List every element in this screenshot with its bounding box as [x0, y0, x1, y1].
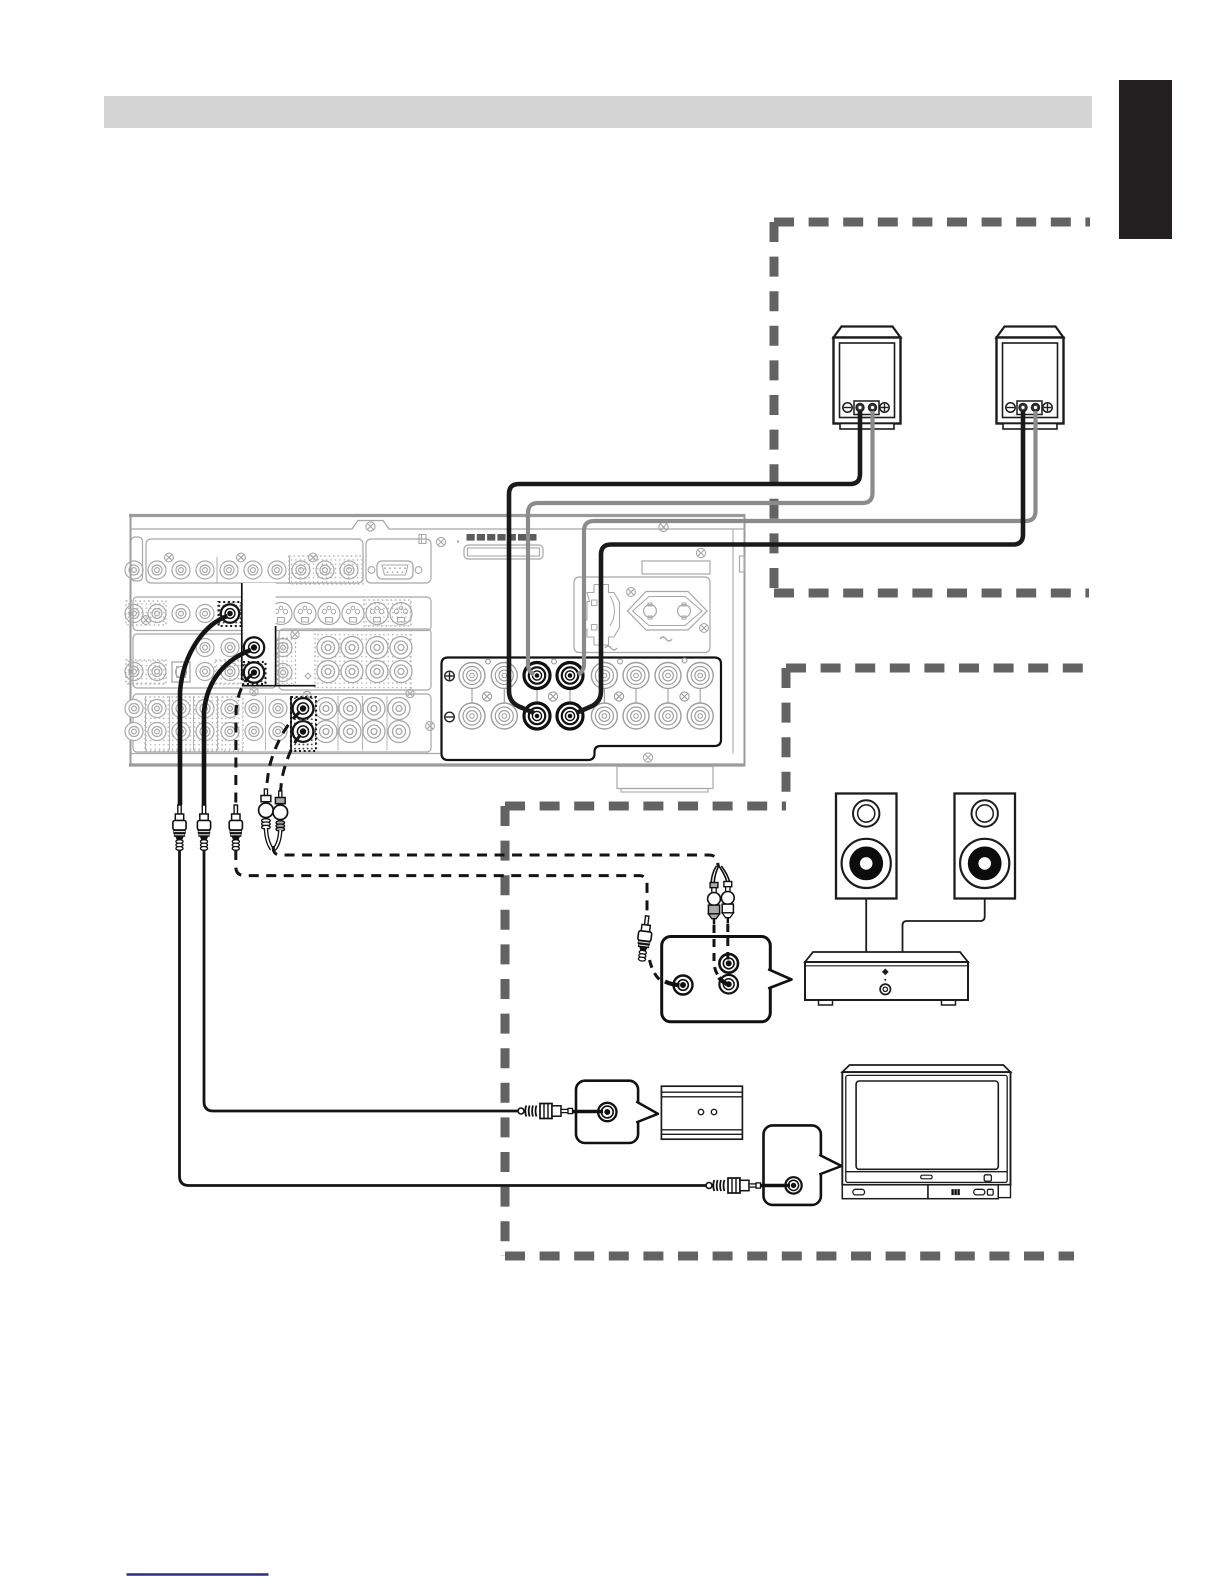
RS-232C D-sub connector [377, 561, 413, 579]
receiver rear panel outline [131, 515, 745, 766]
rows 4-5 dividers [145, 696, 147, 751]
AUDIO OUT jack (to DSS) [244, 637, 264, 657]
dotted box mid pair [278, 638, 296, 685]
cable video-to-TV from VIDEO jack [180, 616, 228, 805]
TV bubble jack [785, 1177, 801, 1193]
RS-232C section box [366, 539, 431, 583]
power amplifier [805, 952, 968, 962]
DSS receiver box [661, 1086, 742, 1139]
white inset box for OUT jacks [242, 583, 276, 686]
television set [842, 1065, 1010, 1072]
terminal block small screws [552, 659, 557, 664]
RCA jack row 1 [125, 561, 143, 579]
page header bar [104, 96, 1092, 128]
dashed zone box 1 (remote speakers) [774, 218, 1090, 227]
cable DSS plug to jack [572, 1110, 603, 1113]
dotted box mid center [215, 660, 241, 684]
MULTI ROOM OUT R jack [293, 721, 314, 742]
amp-side Y-split [714, 866, 718, 883]
dashed gray plug to jack [726, 924, 729, 960]
fan slot icon [419, 535, 426, 544]
callout bubble TV pointer [819, 1155, 841, 1175]
optical connector [172, 662, 190, 682]
serial label [642, 561, 710, 574]
VIDEO OUT 2 jack (dashed cable) [244, 662, 264, 682]
remote speaker left [834, 327, 901, 338]
audio pair plug white [264, 789, 267, 797]
binding post columns [471, 689, 473, 704]
MULTI ROOM OUT L jack [293, 698, 314, 719]
mid section boxes [133, 634, 276, 688]
callout bubble DSS pointer [636, 1102, 658, 1123]
diamond mark [305, 673, 311, 679]
dotted block 7.1ch input [315, 629, 411, 690]
terminal block cross screws [482, 692, 491, 701]
audio pair plug gray [279, 791, 282, 799]
row 2 screws [260, 592, 269, 601]
ENGLISH side tab [1119, 80, 1172, 239]
amp speaker left wire [865, 899, 867, 952]
AC inlet shape [585, 585, 620, 646]
wire sp-left plus (gray) [528, 411, 873, 675]
dotted highlight MULTI ROOM OUT [291, 697, 316, 751]
speaker terminal block [442, 658, 722, 761]
dashed zone box 2 (other room) [786, 664, 1085, 673]
row 1 screws [165, 553, 174, 562]
dashed cable from MULTI ROOM L [266, 712, 300, 789]
dashed cable run to monitor-out [236, 850, 647, 916]
model label plate [464, 545, 543, 559]
dashed cable from MULTI ROOM R [281, 735, 301, 791]
cable run to DSS [204, 850, 519, 1111]
amp white plug [724, 882, 732, 887]
plug audio-to-DSS [202, 805, 205, 816]
dotted box component video out [289, 556, 363, 584]
dotted box s-video [364, 600, 411, 626]
RCA jacks rows 4-5 [125, 700, 143, 718]
audio pair Y-join [266, 828, 272, 849]
cable TV plug to jack [760, 1184, 790, 1187]
dotted box audio left [145, 697, 218, 751]
dotted box mid far left [126, 660, 166, 684]
receiver pedestal foot [617, 767, 713, 789]
single plug to amp video [635, 915, 654, 962]
amp speaker left [836, 794, 897, 899]
receiver top screw [366, 522, 375, 531]
AC tilde marks [660, 637, 672, 641]
amp bubble right top jack [719, 954, 738, 973]
cable run DSS F-plug [518, 1108, 524, 1114]
rows 4-5 screws [303, 691, 311, 699]
callout bubble TV [764, 1125, 821, 1205]
dashed single to bubble jack [650, 960, 663, 982]
power section box [574, 577, 710, 653]
dashed audio pair run [273, 846, 718, 867]
callout bubble amp inputs [662, 937, 771, 1022]
dotted highlight VIDEO OUT jack [219, 602, 242, 626]
marantz logo [467, 534, 475, 541]
amp bubble right bottom jack [719, 975, 738, 994]
VIDEO OUT jack (to TV) [221, 604, 239, 622]
amp speaker right wire [903, 899, 985, 952]
AC outlet hexagon [628, 592, 708, 631]
remote speaker right [997, 327, 1064, 338]
audio rows section box [133, 694, 431, 752]
wire sp-left minus (black) [509, 411, 860, 713]
terminal plus symbol [445, 671, 455, 681]
s-video row section box [133, 597, 431, 631]
plug video-to-TV [178, 805, 181, 816]
cable audio-to-DSS from OUT jack [204, 650, 251, 805]
row 1 dividers [216, 557, 218, 583]
dashed cable from VIDEO 2 jack [236, 675, 252, 806]
component video section box [146, 539, 363, 583]
amp gray plug [710, 883, 718, 888]
mid screws [291, 630, 299, 638]
callout bubble DSS [576, 1081, 638, 1143]
amp bubble left jack [674, 976, 693, 995]
terminal minus symbol [445, 712, 455, 722]
dotted highlight VIDEO jack [243, 662, 266, 684]
amp speaker right [955, 794, 1016, 899]
cable run TV F-plug [706, 1183, 712, 1189]
power section screws [627, 588, 636, 597]
footer rule [127, 1573, 269, 1575]
mid RCA jacks [125, 663, 143, 681]
top right screw [436, 537, 445, 546]
cable run to TV [180, 850, 708, 1186]
wire sp-right plus (gray) [578, 411, 1036, 675]
wire sp-right minus (black) [576, 411, 1023, 713]
s-video DIN connectors [246, 603, 268, 625]
RCA jacks row 2 [125, 605, 143, 623]
callout bubble amp pointer [768, 969, 791, 988]
receiver bottom screw [643, 753, 652, 762]
dashed white plug to jack [714, 925, 718, 975]
dotted box row2 left [126, 601, 166, 625]
plug dashed cable [234, 805, 237, 816]
DSS bubble jack [598, 1103, 616, 1121]
